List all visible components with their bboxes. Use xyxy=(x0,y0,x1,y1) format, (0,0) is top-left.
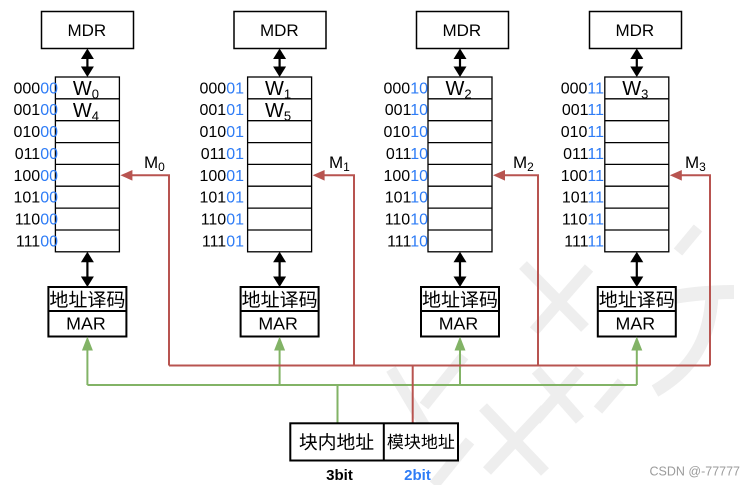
svg-text:10000: 10000 xyxy=(14,168,59,185)
svg-text:11010: 11010 xyxy=(385,212,428,229)
svg-text:10100: 10100 xyxy=(14,190,59,207)
svg-text:2bit: 2bit xyxy=(404,467,431,484)
svg-text:01111: 01111 xyxy=(563,146,604,163)
svg-text:MDR: MDR xyxy=(67,21,106,40)
svg-text:01010: 01010 xyxy=(384,124,429,141)
select line M3: red wire into bank row 5 xyxy=(681,175,710,365)
svg-text:00000: 00000 xyxy=(14,80,59,97)
wire: bank2 to decoder2 double arrow xyxy=(454,252,467,287)
address labels for bank 1 xyxy=(200,80,245,250)
svg-text:11111: 11111 xyxy=(564,233,604,250)
svg-text:10101: 10101 xyxy=(200,190,245,207)
memory bank 3 (8 word cells) xyxy=(605,77,669,252)
svg-text:00101: 00101 xyxy=(200,102,245,119)
watermark strokes (decorative) xyxy=(391,228,734,485)
svg-text:00110: 00110 xyxy=(385,102,428,119)
svg-text:CSDN @-77777: CSDN @-77777 xyxy=(650,465,741,479)
svg-text:MAR: MAR xyxy=(616,314,656,334)
svg-text:11100: 11100 xyxy=(16,233,58,250)
green stub from block-address field up to bus xyxy=(337,385,339,424)
wire: bank1 to decoder1 double arrow xyxy=(273,252,286,287)
svg-text:11000: 11000 xyxy=(15,212,58,229)
select line M1: red wire into bank row 5 xyxy=(324,175,354,365)
svg-text:MAR: MAR xyxy=(66,314,106,334)
select line M2: red wire into bank row 5 xyxy=(504,175,538,365)
svg-text:11110: 11110 xyxy=(387,233,428,250)
green address wire up into MAR1 xyxy=(274,337,285,386)
svg-text:MDR: MDR xyxy=(260,21,299,40)
svg-text:01001: 01001 xyxy=(200,124,245,141)
address labels for bank 2 xyxy=(384,80,429,250)
green address wire up into MAR0 xyxy=(82,337,93,386)
svg-text:11011: 11011 xyxy=(562,212,604,229)
address labels for bank 3 xyxy=(561,80,604,250)
svg-text:10001: 10001 xyxy=(200,168,245,185)
label 地址译码 (addr decode), module 0 xyxy=(50,291,124,309)
select line M0: red wire into bank row 5 xyxy=(131,175,169,365)
red module-select bus (horizontal) xyxy=(169,365,710,367)
svg-text:01101: 01101 xyxy=(201,146,244,163)
wire: MDR0 to bank0 double arrow xyxy=(81,49,94,78)
label 地址译码 (addr decode), module 3 xyxy=(599,291,673,309)
svg-text:01011: 01011 xyxy=(561,124,604,141)
green address wire up into MAR2 xyxy=(455,337,466,386)
svg-text:00111: 00111 xyxy=(562,102,604,119)
memory module 2 MDR box xyxy=(417,12,509,49)
svg-text:MAR: MAR xyxy=(439,314,479,334)
address labels for bank 0 xyxy=(14,80,59,250)
svg-text:00010: 00010 xyxy=(384,80,429,97)
green address wire up into MAR3 xyxy=(631,337,642,386)
memory module 1 MDR box xyxy=(234,12,326,49)
wire: bank0 to decoder0 double arrow xyxy=(81,252,94,287)
memory module 0 MDR box xyxy=(42,12,134,49)
label 地址译码 (addr decode), module 1 xyxy=(242,291,316,309)
wire: MDR2 to bank2 double arrow xyxy=(454,49,467,78)
svg-text:10110: 10110 xyxy=(385,190,428,207)
address decoder / MAR box, module 2 xyxy=(421,287,499,337)
svg-text:10111: 10111 xyxy=(562,190,604,207)
red stub from module-address field up to red bus xyxy=(412,366,414,425)
svg-text:00011: 00011 xyxy=(561,80,604,97)
address decoder / MAR box, module 1 xyxy=(241,287,319,337)
wire: MDR3 to bank3 double arrow xyxy=(630,49,643,78)
wire: MDR1 to bank1 double arrow xyxy=(273,49,286,78)
label 地址译码 (addr decode), module 2 xyxy=(423,291,497,309)
label 块内地址 (in-block address) xyxy=(300,433,374,450)
wire: bank3 to decoder3 double arrow xyxy=(630,252,643,287)
svg-text:10011: 10011 xyxy=(561,168,604,185)
svg-text:MAR: MAR xyxy=(258,314,298,334)
svg-text:MDR: MDR xyxy=(615,21,654,40)
svg-text:10010: 10010 xyxy=(384,168,429,185)
label 模块地址 (module address) xyxy=(387,434,454,450)
svg-text:11001: 11001 xyxy=(201,212,244,229)
memory bank 1 (8 word cells) xyxy=(248,77,312,252)
svg-text:11101: 11101 xyxy=(202,233,244,250)
svg-text:3bit: 3bit xyxy=(326,467,353,484)
memory module 3 MDR box xyxy=(590,12,682,49)
svg-text:01000: 01000 xyxy=(14,124,59,141)
memory bank 2 (8 word cells) xyxy=(428,77,492,252)
svg-text:00001: 00001 xyxy=(200,80,245,97)
green block-address bus (horizontal) xyxy=(87,384,636,386)
address decoder / MAR box, module 0 xyxy=(48,287,126,337)
svg-text:01100: 01100 xyxy=(15,146,58,163)
address decoder / MAR box, module 3 xyxy=(598,287,676,337)
svg-text:00100: 00100 xyxy=(14,102,59,119)
svg-text:MDR: MDR xyxy=(442,21,481,40)
memory bank 0 (8 word cells) xyxy=(55,77,119,252)
svg-text:01110: 01110 xyxy=(386,146,428,163)
address register box: 块内地址 | 模块地址 xyxy=(290,423,458,460)
